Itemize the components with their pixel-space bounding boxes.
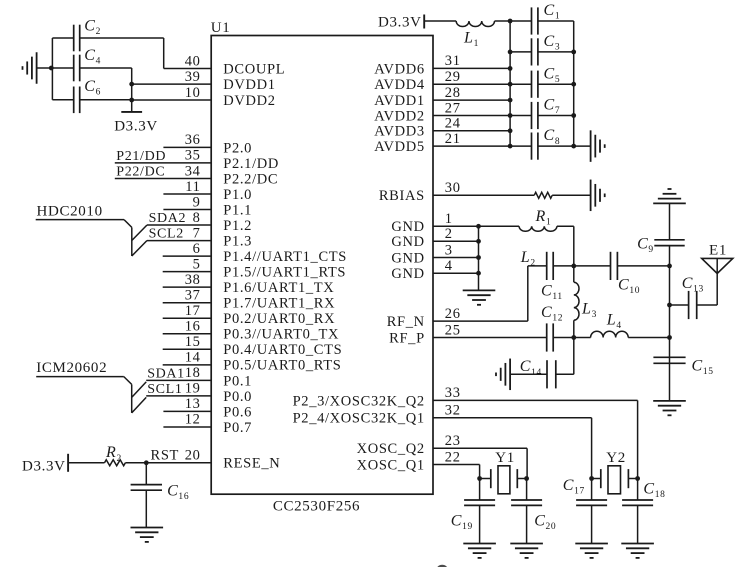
wire C2 to pin 40: [163, 38, 165, 69]
svg-text:P0.3//UART0_TX: P0.3//UART0_TX: [223, 327, 339, 343]
inductor L1: [456, 21, 494, 49]
svg-text:SCL1: SCL1: [147, 382, 182, 397]
wire R1 to node A: [573, 226, 575, 266]
wire RF_N riser: [528, 266, 547, 321]
svg-text:CC2530F256: CC2530F256: [273, 499, 360, 515]
wire left bus of C2/C4/C6: [51, 38, 53, 100]
svg-text:AVDD1: AVDD1: [374, 93, 425, 109]
junction dot left bus y=68.4: [508, 66, 513, 71]
pin 26 RF_N: [387, 306, 528, 330]
node A junction dot: [571, 264, 576, 269]
crystal Y2: [592, 450, 638, 494]
svg-text:P0.7: P0.7: [223, 420, 252, 436]
pin 28 AVDD1: [374, 85, 510, 109]
svg-text:17: 17: [185, 303, 201, 319]
svg-text:Y1: Y1: [495, 450, 515, 466]
svg-text:GND: GND: [391, 250, 424, 266]
svg-text:Y2: Y2: [606, 450, 626, 466]
svg-text:11: 11: [185, 179, 200, 195]
pin 1 GND: [391, 211, 478, 235]
ground (AVDD bank, sideways): [591, 130, 605, 162]
capacitor C8: [510, 127, 574, 160]
pin 8 P1.2 net SDA2: [147, 210, 252, 234]
svg-text:9: 9: [193, 194, 201, 210]
pin 13 P0.6: [163, 396, 252, 420]
svg-text:P1.3: P1.3: [223, 233, 252, 249]
svg-text:31: 31: [445, 53, 461, 69]
capacitor C20: [511, 479, 556, 544]
pin 23 XOSC_Q2: [357, 433, 528, 457]
junction dot Y2 right: [635, 476, 640, 481]
pin 16 P0.3//UART0_TX: [163, 319, 339, 343]
pin 32 P2_4/XOSC32K_Q1: [293, 403, 592, 427]
pin 4 GND: [391, 258, 478, 282]
junction dot GND bus y=273.2: [476, 271, 481, 276]
wire RBIAS resistor to ground: [552, 194, 590, 196]
pin 39 DVDD1: [132, 69, 276, 93]
pin 33 P2_3/XOSC32K_Q2: [293, 385, 638, 409]
svg-text:DCOUPL: DCOUPL: [223, 61, 285, 77]
junction dot Y1 left: [477, 476, 482, 481]
svg-text:10: 10: [185, 85, 201, 101]
svg-text:4: 4: [445, 258, 453, 274]
capacitor C17: [563, 477, 607, 544]
ground (C19): [463, 544, 496, 558]
svg-text:ICM20602: ICM20602: [36, 360, 107, 376]
junction dot GND bus y=257.5: [476, 255, 481, 260]
svg-text:P1.2: P1.2: [223, 218, 252, 234]
capacitor C19: [451, 479, 495, 544]
junction dot right bus y=51.9: [571, 50, 576, 55]
capacitor C13: [670, 275, 718, 319]
svg-text:39: 39: [185, 69, 201, 85]
pin 15 P0.4/UART0_CTS: [163, 334, 343, 358]
ground (C20): [510, 544, 543, 558]
svg-text:12: 12: [185, 412, 201, 428]
junction dot Y1 right: [524, 476, 529, 481]
pin 17 P0.2/UART0_RX: [163, 303, 336, 327]
wire D3.3V to L1: [424, 20, 456, 22]
junction dot right bus y=115.5: [571, 113, 576, 118]
svg-text:P2.0: P2.0: [223, 140, 252, 156]
svg-text:22: 22: [445, 449, 461, 465]
ground (C17): [575, 544, 608, 558]
svg-text:P0.0: P0.0: [223, 389, 252, 405]
svg-text:16: 16: [185, 319, 201, 335]
pin 12 P0.7: [163, 412, 252, 436]
ground (inverted, above C9): [653, 189, 686, 203]
capacitor C15: [653, 357, 713, 377]
wire AVDD left bus: [509, 21, 511, 146]
junction dot C10/antenna bus: [667, 264, 672, 269]
svg-text:SDA2: SDA2: [149, 211, 187, 226]
svg-text:P1.6/UART1_TX: P1.6/UART1_TX: [223, 280, 334, 296]
junction dot RST node: [144, 460, 149, 465]
node B junction dot: [571, 335, 576, 340]
pin 14 P0.5/UART0_RTS: [163, 350, 342, 374]
pin 18 P0.1 net SDA1: [146, 365, 252, 389]
junction dot ground/C4 row: [49, 66, 54, 71]
svg-text:P1.4//UART1_CTS: P1.4//UART1_CTS: [223, 249, 347, 265]
svg-text:DVDD2: DVDD2: [223, 93, 275, 109]
svg-text:D3.3V: D3.3V: [378, 15, 422, 31]
svg-text:AVDD3: AVDD3: [374, 124, 425, 140]
svg-text:RBIAS: RBIAS: [379, 188, 425, 204]
svg-text:P1.7/UART1_RX: P1.7/UART1_RX: [223, 296, 335, 312]
capacitor C5: [510, 65, 574, 98]
svg-text:30: 30: [445, 180, 461, 196]
wire pin 22 riser: [479, 465, 481, 479]
svg-text:RST: RST: [151, 447, 180, 463]
capacitor C7: [510, 97, 574, 130]
svg-text:P22/DC: P22/DC: [116, 164, 165, 179]
svg-text:P1.0: P1.0: [223, 187, 252, 203]
svg-text:P2_3/XOSC32K_Q2: P2_3/XOSC32K_Q2: [293, 393, 425, 409]
wire R2 to RST node: [125, 462, 146, 464]
svg-text:36: 36: [185, 132, 201, 148]
svg-text:AVDD2: AVDD2: [374, 108, 425, 124]
svg-text:P2.2/DC: P2.2/DC: [223, 171, 278, 187]
svg-text:23: 23: [445, 433, 461, 449]
svg-text:21: 21: [445, 131, 461, 147]
svg-text:7: 7: [193, 225, 201, 241]
svg-text:33: 33: [445, 385, 461, 401]
svg-text:34: 34: [185, 163, 201, 179]
svg-text:SCL2: SCL2: [149, 227, 184, 242]
svg-text:P21/DD: P21/DD: [116, 149, 166, 164]
wire C4 column to DVDD pins and D3.3V: [131, 68, 133, 112]
junction dot left bus y=115.5: [508, 113, 513, 118]
svg-text:13: 13: [185, 396, 201, 412]
capacitor C4: [52, 47, 131, 81]
svg-text:P2.1/DD: P2.1/DD: [223, 156, 279, 172]
svg-text:P0.4/UART0_CTS: P0.4/UART0_CTS: [223, 342, 342, 358]
wire D3.3V to R2: [68, 462, 104, 464]
antenna E1: [702, 243, 733, 274]
svg-text:AVDD6: AVDD6: [374, 61, 425, 77]
junction dot DVDD1: [129, 82, 134, 87]
pin 9 P1.1: [163, 194, 252, 218]
wire C8 row to ground: [574, 145, 591, 147]
junction dot C13/antenna bus: [667, 303, 672, 308]
svg-text:40: 40: [185, 53, 201, 69]
svg-text:XOSC_Q1: XOSC_Q1: [357, 457, 425, 473]
junction dot GND bus y=241.3: [476, 239, 481, 244]
ground (C18): [621, 544, 654, 558]
pin 11 P1.0: [163, 179, 252, 203]
pin 29 AVDD4: [374, 69, 510, 93]
svg-text:14: 14: [185, 350, 201, 366]
power rail D3.3V (reset): [22, 454, 68, 475]
svg-text:37: 37: [185, 288, 201, 304]
power rail D3.3V (top-left): [114, 112, 158, 135]
svg-text:GND: GND: [391, 266, 424, 282]
bus wire HDC2010: [36, 220, 147, 256]
pin 34 P2.2/DC with net label P22/DC: [115, 163, 278, 187]
svg-text:P0.5/UART0_RTS: P0.5/UART0_RTS: [223, 358, 341, 374]
junction dot left bus y=84.2: [508, 82, 513, 87]
svg-text:P0.6: P0.6: [223, 404, 252, 420]
wire AVDD right bus: [573, 21, 575, 146]
pin 7 P1.3 net SCL2: [147, 225, 252, 249]
wire pin 23 riser: [526, 448, 528, 478]
junction dot left bus y=51.9: [508, 50, 513, 55]
wire node B down: [573, 338, 575, 375]
svg-text:2: 2: [445, 226, 453, 242]
ground (sideways, C2/C4/C6 bank): [23, 52, 53, 84]
junction dot DVDD2: [129, 98, 134, 103]
pin 35 P2.1/DD with net label P21/DD: [115, 148, 279, 172]
svg-text:P1.5//UART1_RTS: P1.5//UART1_RTS: [223, 265, 346, 281]
net label HDC2010: [37, 204, 103, 220]
net label L2: [520, 249, 536, 269]
pin 5 P1.5//UART1_RTS: [163, 256, 346, 280]
junction dot L4/antenna bus: [667, 335, 672, 340]
IC U1 CC2530F256 body: [211, 20, 433, 515]
svg-text:20: 20: [185, 447, 201, 463]
svg-text:SDA1: SDA1: [147, 366, 185, 381]
capacitor C10: [574, 252, 670, 296]
ground (GND pins): [463, 290, 496, 304]
pin 30 RBIAS: [379, 180, 534, 204]
bus wire ICM20602: [36, 377, 146, 413]
inductor R1 (balun choke): [479, 208, 574, 232]
junction dot AVDD bus top: [508, 19, 513, 24]
wire C13 to antenna: [716, 274, 718, 306]
wire pin 32 riser: [591, 418, 593, 479]
cut-off caption mark at bottom edge: [436, 565, 448, 567]
svg-text:19: 19: [185, 381, 201, 397]
power rail D3.3V (AVDD): [378, 15, 424, 31]
ground (C14, sideways): [496, 359, 510, 391]
svg-text:38: 38: [185, 272, 201, 288]
pin 36 P2.0: [163, 132, 252, 156]
pin 20 RESE_N net RST: [146, 447, 280, 471]
pin 6 P1.4//UART1_CTS: [163, 241, 347, 265]
svg-text:6: 6: [193, 241, 201, 257]
junction dot left bus y=146.1: [508, 144, 513, 149]
svg-text:XOSC_Q2: XOSC_Q2: [357, 441, 425, 457]
capacitor C12: [541, 304, 574, 352]
junction dot right bus y=146.1: [571, 144, 576, 149]
wire GND bus: [478, 226, 480, 290]
net label ICM20602: [36, 360, 107, 376]
capacitor C3: [510, 33, 574, 66]
ground (C16): [131, 528, 164, 542]
ground (C15): [653, 401, 686, 415]
svg-text:18: 18: [185, 365, 201, 381]
junction dot right bus y=84.2: [571, 82, 576, 87]
svg-text:AVDD4: AVDD4: [374, 77, 425, 93]
capacitor C16: [131, 463, 190, 528]
svg-text:8: 8: [193, 210, 201, 226]
svg-text:27: 27: [445, 100, 461, 116]
svg-text:15: 15: [185, 334, 201, 350]
junction dot Y2 left: [589, 476, 594, 481]
svg-text:24: 24: [445, 116, 461, 132]
capacitor C18: [622, 479, 665, 544]
capacitor C9: [637, 235, 685, 255]
svg-text:RESE_N: RESE_N: [223, 456, 280, 472]
ground (RBIAS, sideways): [591, 180, 605, 212]
svg-text:RF_N: RF_N: [387, 314, 425, 330]
resistor R2: [105, 444, 126, 466]
junction dot left bus y=100.1: [508, 98, 513, 103]
pin 2 GND: [391, 226, 478, 250]
junction dot GND bus y=226.3: [476, 224, 481, 229]
pin 31 AVDD6: [374, 53, 510, 77]
pin 3 GND: [391, 242, 478, 266]
svg-text:P1.1: P1.1: [223, 202, 252, 218]
junction dot left bus y=130.8: [508, 128, 513, 133]
wire antenna bus: [669, 246, 671, 401]
pin 37 P1.7/UART1_RX: [163, 288, 336, 312]
svg-text:U1: U1: [211, 20, 231, 36]
svg-text:GND: GND: [391, 219, 424, 235]
svg-text:P0.2/UART0_RX: P0.2/UART0_RX: [223, 311, 335, 327]
svg-text:D3.3V: D3.3V: [22, 459, 66, 475]
svg-text:P0.1: P0.1: [223, 373, 252, 389]
svg-text:DVDD1: DVDD1: [223, 77, 275, 93]
pin 21 AVDD5: [374, 131, 510, 155]
svg-text:D3.3V: D3.3V: [114, 119, 158, 135]
capacitor C1: [510, 2, 574, 35]
svg-text:35: 35: [185, 148, 201, 164]
svg-text:P2_4/XOSC32K_Q1: P2_4/XOSC32K_Q1: [293, 411, 425, 427]
svg-text:29: 29: [445, 69, 461, 85]
pin 40 DCOUPL: [164, 53, 286, 77]
capacitor C11: [541, 252, 574, 302]
wire pin 33 riser: [637, 400, 639, 478]
pin 10 DVDD2: [132, 85, 276, 109]
svg-text:25: 25: [445, 322, 461, 338]
svg-text:5: 5: [193, 256, 201, 272]
svg-text:28: 28: [445, 85, 461, 101]
capacitor C14: [510, 358, 574, 388]
pin 38 P1.6/UART1_TX: [163, 272, 335, 296]
svg-text:1: 1: [445, 211, 453, 227]
wire ground to C9: [669, 203, 671, 239]
svg-text:32: 32: [445, 403, 461, 419]
svg-text:26: 26: [445, 306, 461, 322]
inductor L3: [574, 266, 597, 338]
inductor L4: [574, 312, 670, 338]
pin 24 AVDD3: [374, 116, 510, 140]
crystal Y1: [480, 450, 527, 494]
capacitor C6: [52, 78, 131, 113]
svg-text:RF_P: RF_P: [389, 330, 425, 346]
svg-text:AVDD5: AVDD5: [374, 139, 425, 155]
pin 19 P0.0 net SCL1: [146, 381, 252, 405]
svg-text:GND: GND: [391, 234, 424, 250]
resistor (RBIAS): [534, 192, 552, 198]
pin 27 AVDD2: [374, 100, 510, 124]
svg-text:3: 3: [445, 242, 453, 258]
pin 22 XOSC_Q1: [357, 449, 480, 473]
wire L1 to bus: [495, 20, 511, 22]
capacitor C2: [52, 17, 163, 51]
svg-text:HDC2010: HDC2010: [37, 204, 103, 220]
svg-text:E1: E1: [709, 243, 727, 259]
pin 25 RF_P: [389, 322, 547, 346]
